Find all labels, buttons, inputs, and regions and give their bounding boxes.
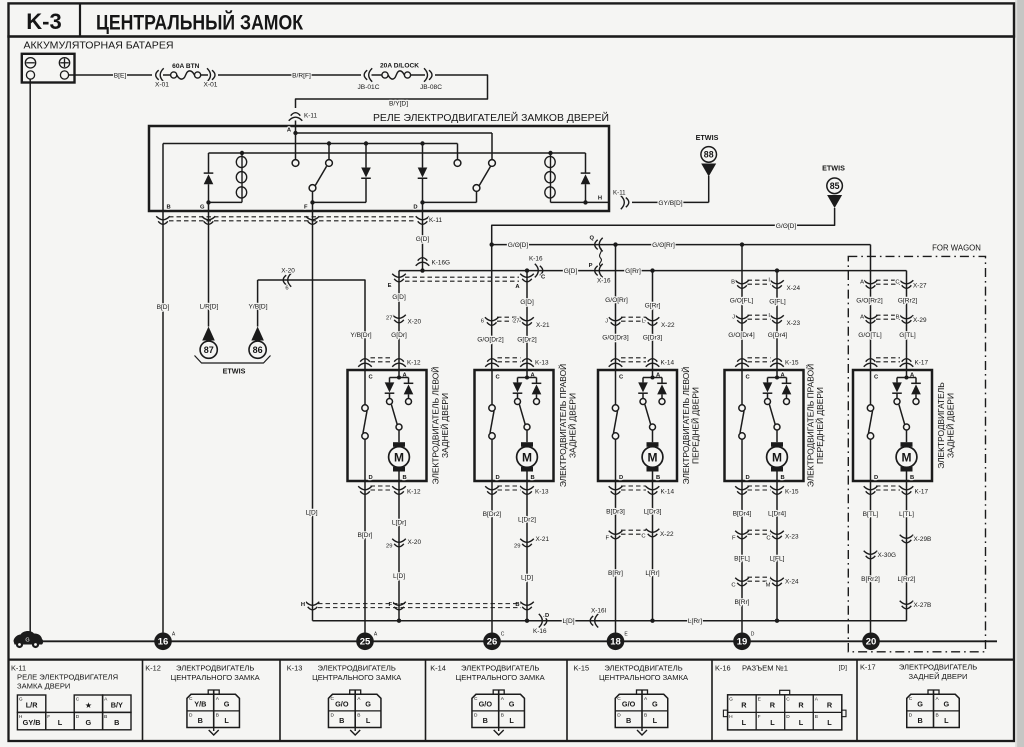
connector X-22 bottom bbox=[609, 531, 623, 539]
svg-text:H: H bbox=[301, 602, 305, 608]
svg-text:87: 87 bbox=[204, 345, 214, 355]
svg-text:ЦЕНТРАЛЬНОГО ЗАМКА: ЦЕНТРАЛЬНОГО ЗАМКА bbox=[456, 673, 546, 682]
ground point 26 bbox=[483, 633, 501, 651]
connector K-16 pin A bbox=[526, 271, 528, 370]
wire B/R[F] bbox=[218, 74, 361, 76]
svg-text:G: G bbox=[509, 700, 515, 709]
svg-text:C: C bbox=[786, 696, 790, 702]
svg-text:M: M bbox=[766, 583, 771, 589]
svg-text:D: D bbox=[909, 713, 913, 719]
svg-text:A: A bbox=[644, 696, 648, 702]
node K-16 pin A junction bbox=[525, 268, 529, 272]
svg-text:L/R: L/R bbox=[26, 700, 38, 709]
svg-text:K-16: K-16 bbox=[715, 664, 731, 673]
connector K-15 below M4 right-front bbox=[735, 486, 749, 494]
svg-text:K-15: K-15 bbox=[785, 489, 799, 496]
svg-text:C: C bbox=[619, 375, 624, 381]
svg-text:19: 19 bbox=[737, 637, 748, 648]
svg-text:X-01: X-01 bbox=[155, 82, 169, 89]
ETWIS pointer 87 bbox=[202, 327, 215, 341]
wire G[Rr2] upper bbox=[906, 271, 908, 370]
svg-text:K-16G: K-16G bbox=[432, 260, 450, 267]
svg-text:B[D]: B[D] bbox=[157, 304, 170, 311]
svg-text:ETWIS: ETWIS bbox=[223, 367, 246, 376]
svg-text:X-29B: X-29B bbox=[914, 536, 932, 543]
svg-text:G[FL]: G[FL] bbox=[769, 299, 786, 306]
M2 right-rear motor M bbox=[526, 430, 528, 442]
connector JB-08C bbox=[424, 68, 432, 82]
battery BAT1 bbox=[22, 54, 75, 83]
svg-text:X-27B: X-27B bbox=[914, 602, 932, 609]
svg-text:M: M bbox=[902, 450, 912, 464]
svg-text:R: R bbox=[770, 700, 776, 709]
svg-text:G: G bbox=[944, 700, 950, 709]
svg-text:F: F bbox=[732, 536, 736, 542]
svg-text:X-16I: X-16I bbox=[591, 608, 606, 615]
svg-text:P: P bbox=[589, 263, 593, 269]
svg-text:B: B bbox=[114, 718, 119, 727]
svg-text:L[TL]: L[TL] bbox=[899, 511, 914, 518]
ground point 25 bbox=[356, 633, 374, 651]
legend K-17 pinout table bbox=[907, 694, 960, 727]
bus G/O[D]-G/O[Rr] bbox=[492, 244, 871, 246]
svg-text:C: C bbox=[641, 534, 645, 540]
connector X-01 right bbox=[207, 68, 215, 82]
svg-text:C: C bbox=[496, 375, 501, 381]
connector K-16 pin D bbox=[539, 614, 547, 628]
svg-text:G/O[Rr2]: G/O[Rr2] bbox=[856, 298, 883, 305]
svg-text:D: D bbox=[874, 475, 878, 481]
node box2 left bbox=[490, 242, 494, 246]
relay U1 box bbox=[149, 126, 609, 211]
connector K-16 pin E bbox=[392, 274, 406, 282]
svg-text:A: A bbox=[860, 315, 864, 321]
door lock motor M2 right-rear box bbox=[475, 370, 554, 481]
door lock motor M5 tailgate box bbox=[853, 370, 932, 481]
svg-text:ЭЛЕКТРОДВИГАТЕЛЬ: ЭЛЕКТРОДВИГАТЕЛЬ bbox=[461, 664, 539, 673]
svg-text:ЭЛЕКТРОДВИГАТЕЛЬ ПРАВОЙ: ЭЛЕКТРОДВИГАТЕЛЬ ПРАВОЙ bbox=[805, 364, 816, 487]
svg-text:R: R bbox=[827, 700, 833, 709]
svg-text:L[FL]: L[FL] bbox=[769, 556, 784, 563]
svg-text:FOR WAGON: FOR WAGON bbox=[932, 244, 981, 253]
node box3 left top bbox=[613, 242, 617, 246]
connector K-16 pin H bbox=[306, 602, 320, 610]
svg-text:ETWIS: ETWIS bbox=[696, 133, 719, 142]
svg-text:A: A bbox=[501, 696, 505, 702]
wire G[FL] upper bbox=[776, 271, 778, 370]
svg-text:B: B bbox=[104, 714, 107, 720]
wire G/O[Rr] down bbox=[615, 245, 617, 370]
relay pin H wire bbox=[551, 201, 610, 203]
svg-text:B: B bbox=[483, 716, 488, 725]
svg-text:R: R bbox=[741, 700, 747, 709]
svg-text:26: 26 bbox=[487, 637, 498, 648]
svg-text:K-17: K-17 bbox=[915, 489, 929, 496]
svg-text:D: D bbox=[496, 475, 500, 481]
connector X-16 pin Q bbox=[595, 238, 603, 252]
svg-text:B[FL]: B[FL] bbox=[734, 556, 750, 563]
svg-text:L[Rr2]: L[Rr2] bbox=[898, 576, 916, 583]
svg-text:G: G bbox=[19, 697, 23, 703]
node L bus box2 bbox=[525, 619, 529, 623]
svg-text:ЦЕНТРАЛЬНОГО ЗАМКА: ЦЕНТРАЛЬНОГО ЗАМКА bbox=[312, 673, 402, 682]
svg-text:C: C bbox=[746, 375, 751, 381]
relay bus A bbox=[296, 132, 493, 134]
wire B[TL] wagon bbox=[870, 481, 872, 633]
relay diode D3 bbox=[420, 141, 424, 145]
svg-text:B[Dr3]: B[Dr3] bbox=[606, 509, 625, 516]
svg-text:K-14: K-14 bbox=[430, 664, 446, 673]
svg-text:C: C bbox=[909, 696, 913, 702]
svg-text:РАЗЪЕМ №1: РАЗЪЕМ №1 bbox=[742, 664, 788, 673]
svg-text:ЗАМКА ДВЕРИ: ЗАМКА ДВЕРИ bbox=[17, 682, 70, 691]
svg-text:K-12: K-12 bbox=[407, 360, 421, 367]
M5 tailgate changeover switch bbox=[904, 424, 910, 430]
svg-text:G[D]: G[D] bbox=[564, 268, 578, 275]
svg-text:R: R bbox=[798, 700, 804, 709]
svg-text:X-24: X-24 bbox=[785, 579, 799, 586]
svg-text:ЭЛЕКТРОДВИГАТЕЛЬ ЛЕВОЙ: ЭЛЕКТРОДВИГАТЕЛЬ ЛЕВОЙ bbox=[680, 367, 691, 485]
svg-text:L[D]: L[D] bbox=[562, 618, 574, 625]
scan shadow right edge bbox=[1017, 0, 1024, 747]
svg-text:G[Dr3]: G[Dr3] bbox=[643, 334, 663, 341]
connector K-14 below M3 left-front bbox=[609, 486, 623, 494]
svg-text:G/O[FL]: G/O[FL] bbox=[730, 298, 754, 305]
svg-text:K-16: K-16 bbox=[529, 256, 543, 263]
svg-text:L[Rr]: L[Rr] bbox=[645, 570, 659, 577]
connector X-29B bbox=[900, 535, 914, 543]
svg-text:ЗАДНЕЙ ДВЕРИ: ЗАДНЕЙ ДВЕРИ bbox=[439, 393, 450, 458]
svg-text:B[TL]: B[TL] bbox=[863, 511, 879, 518]
svg-text:27: 27 bbox=[386, 316, 392, 322]
wire B[Dr] box1 bbox=[364, 481, 366, 633]
svg-text:L/R[D]: L/R[D] bbox=[200, 304, 219, 311]
svg-text:C: C bbox=[895, 280, 899, 286]
svg-text:B[Rr2]: B[Rr2] bbox=[861, 576, 880, 583]
relay diode D1 (G branch) bbox=[208, 153, 210, 173]
M3 left-front pin C switch bbox=[615, 370, 617, 405]
svg-text:B: B bbox=[936, 713, 939, 719]
svg-text:L: L bbox=[827, 718, 832, 727]
wire L/R[D] bbox=[208, 212, 210, 327]
svg-text:X-20: X-20 bbox=[408, 319, 422, 326]
svg-text:ЦЕНТРАЛЬНОГО ЗАМКА: ЦЕНТРАЛЬНОГО ЗАМКА bbox=[599, 673, 689, 682]
svg-text:D: D bbox=[619, 475, 623, 481]
svg-text:G: G bbox=[365, 700, 371, 709]
ETWIS pointer 86 bbox=[251, 327, 264, 341]
M1 left-rear pin C switch bbox=[364, 370, 366, 405]
svg-text:L: L bbox=[944, 716, 949, 725]
svg-text:ЭЛЕКТРОДВИГАТЕЛЬ ЛЕВОЙ: ЭЛЕКТРОДВИГАТЕЛЬ ЛЕВОЙ bbox=[430, 367, 441, 485]
svg-text:X-22: X-22 bbox=[660, 531, 674, 538]
svg-text:G[Dr2]: G[Dr2] bbox=[517, 336, 537, 343]
connector X-30G bbox=[864, 551, 878, 559]
relay coil L2 bbox=[548, 151, 552, 155]
svg-text:D: D bbox=[474, 713, 478, 719]
relay pin D wire bbox=[420, 200, 424, 204]
svg-text:C: C bbox=[369, 375, 374, 381]
connector K-11 below relay bbox=[169, 216, 417, 218]
node L bus box3 bbox=[650, 619, 654, 623]
M2 right-rear pin A diodes bbox=[526, 370, 528, 378]
svg-text:B: B bbox=[167, 205, 171, 211]
svg-text:B: B bbox=[216, 713, 219, 719]
svg-text:ЭЛЕКТРОДВИГАТЕЛЬ: ЭЛЕКТРОДВИГАТЕЛЬ bbox=[318, 664, 396, 673]
svg-text:G/O[Dr3]: G/O[Dr3] bbox=[602, 334, 629, 341]
svg-text:L[D]: L[D] bbox=[521, 574, 533, 581]
svg-text:K-14: K-14 bbox=[661, 489, 675, 496]
door lock motor M1 left-rear box bbox=[348, 370, 427, 481]
svg-text:C: C bbox=[330, 696, 334, 702]
svg-text:B: B bbox=[656, 475, 660, 481]
svg-text:G[Dr4]: G[Dr4] bbox=[768, 332, 788, 339]
svg-text:ЭЛЕКТРОДВИГАТЕЛЬ: ЭЛЕКТРОДВИГАТЕЛЬ bbox=[899, 663, 977, 672]
svg-text:G[D]: G[D] bbox=[392, 294, 406, 301]
svg-text:L[Dr4]: L[Dr4] bbox=[768, 511, 786, 518]
svg-text:K-3: K-3 bbox=[26, 9, 61, 34]
svg-text:A: A bbox=[104, 697, 108, 703]
svg-text:B/Y[D]: B/Y[D] bbox=[389, 101, 408, 108]
wire battery positive B[E] bbox=[69, 74, 152, 76]
connector K-14 above M3 left-front bbox=[609, 359, 623, 367]
svg-text:K-12: K-12 bbox=[145, 664, 161, 673]
relay wire F to diode D2 bbox=[310, 200, 314, 204]
svg-text:Y/B[Dr]: Y/B[Dr] bbox=[350, 332, 371, 339]
svg-text:X-24: X-24 bbox=[787, 285, 801, 292]
svg-text:6: 6 bbox=[481, 319, 484, 325]
wire G[Rr] down bbox=[652, 271, 654, 370]
svg-text:C: C bbox=[76, 697, 80, 703]
svg-text:L: L bbox=[366, 716, 371, 725]
svg-text:L[Dr3]: L[Dr3] bbox=[644, 509, 662, 516]
connector X-16I bbox=[590, 614, 598, 628]
connector X-27 bbox=[864, 280, 878, 288]
svg-text:L: L bbox=[770, 718, 775, 727]
connector K-16 pin C bbox=[535, 264, 543, 278]
svg-text:M: M bbox=[522, 450, 532, 464]
svg-text:X-22: X-22 bbox=[661, 322, 675, 329]
svg-text:D: D bbox=[189, 713, 193, 719]
svg-text:B[E]: B[E] bbox=[114, 73, 127, 80]
svg-text:G/O[D]: G/O[D] bbox=[508, 242, 529, 249]
svg-text:B: B bbox=[815, 714, 818, 720]
svg-text:29: 29 bbox=[514, 544, 520, 550]
M2 right-rear changeover switch bbox=[524, 424, 530, 430]
svg-text:X-20: X-20 bbox=[281, 268, 295, 275]
wire L[Dr2] box2 bbox=[526, 481, 528, 621]
M1 left-rear changeover switch bbox=[396, 424, 402, 430]
svg-text:B: B bbox=[198, 716, 203, 725]
svg-text:B: B bbox=[644, 713, 647, 719]
svg-text:J: J bbox=[732, 315, 735, 321]
svg-text:D: D bbox=[545, 613, 549, 619]
svg-text:ЭЛЕКТРОДВИГАТЕЛЬ ПРАВОЙ: ЭЛЕКТРОДВИГАТЕЛЬ ПРАВОЙ bbox=[557, 364, 568, 487]
svg-text:G[Rr]: G[Rr] bbox=[625, 268, 641, 275]
FOR WAGON dash-dot box bbox=[848, 256, 985, 651]
wire Y/B[D] bbox=[257, 280, 259, 327]
svg-text:B[Dr2]: B[Dr2] bbox=[483, 511, 502, 518]
svg-text:G: G bbox=[25, 638, 29, 644]
M1 left-rear pin A diodes bbox=[398, 370, 400, 378]
connector JB-01C bbox=[364, 68, 372, 82]
relay pin B wire bbox=[162, 144, 164, 212]
connector K-13 above M2 right-rear bbox=[485, 359, 499, 367]
svg-text:JB-08C: JB-08C bbox=[420, 84, 442, 91]
svg-text:B: B bbox=[917, 716, 922, 725]
svg-text:L[D]: L[D] bbox=[305, 510, 317, 517]
svg-text:K-15: K-15 bbox=[785, 360, 799, 367]
svg-text:ЗАДНЕЙ ДВЕРИ: ЗАДНЕЙ ДВЕРИ bbox=[909, 672, 968, 681]
title block bbox=[9, 3, 1015, 36]
svg-text:ЗАДНЕЙ ДВЕРИ: ЗАДНЕЙ ДВЕРИ bbox=[567, 393, 578, 458]
door lock motor M3 left-front box bbox=[598, 370, 677, 481]
node box4 left top bbox=[740, 242, 744, 246]
svg-text:B: B bbox=[339, 716, 344, 725]
svg-text:20A D/LOCK: 20A D/LOCK bbox=[380, 63, 419, 70]
svg-text:G[Rr2]: G[Rr2] bbox=[898, 298, 918, 305]
svg-text:АККУМУЛЯТОРНАЯ БАТАРЕЯ: АККУМУЛЯТОРНАЯ БАТАРЕЯ bbox=[24, 41, 174, 52]
svg-text:F: F bbox=[304, 205, 308, 211]
svg-text:C: C bbox=[617, 696, 621, 702]
svg-text:A: A bbox=[357, 696, 361, 702]
svg-text:D: D bbox=[751, 631, 755, 637]
ground point 18 bbox=[607, 633, 625, 651]
connector X-20 pin 29 bbox=[392, 539, 406, 547]
svg-text:G: G bbox=[729, 696, 733, 702]
M1 left-rear motor M bbox=[398, 430, 400, 442]
svg-text:A: A bbox=[860, 280, 864, 286]
svg-text:D: D bbox=[617, 713, 621, 719]
svg-text:B: B bbox=[626, 716, 631, 725]
legend cell divider bbox=[711, 660, 713, 741]
svg-text:6: 6 bbox=[285, 286, 288, 292]
svg-text:L[D]: L[D] bbox=[393, 573, 405, 580]
legend cell divider bbox=[142, 660, 144, 741]
node L bus box4 bbox=[775, 619, 779, 623]
svg-text:B: B bbox=[781, 475, 785, 481]
wire L[TL] wagon bbox=[906, 481, 908, 621]
svg-text:G/O: G/O bbox=[479, 700, 493, 709]
legend K-16 pinout table bbox=[728, 695, 842, 730]
ground point 16 bbox=[154, 633, 172, 651]
svg-text:D: D bbox=[76, 714, 80, 720]
svg-text:G/O[D]: G/O[D] bbox=[776, 223, 797, 230]
svg-text:X-16: X-16 bbox=[597, 278, 611, 285]
svg-text:B: B bbox=[910, 475, 914, 481]
svg-text:[D]: [D] bbox=[839, 665, 848, 672]
svg-text:K-17: K-17 bbox=[860, 663, 876, 672]
connector K-12 below M1 left-rear bbox=[358, 486, 372, 494]
wire G[D] from relay D bbox=[422, 212, 424, 271]
relay bus C bbox=[209, 152, 586, 154]
legend cell divider bbox=[425, 660, 427, 741]
svg-text:K-15: K-15 bbox=[574, 664, 590, 673]
svg-text:20: 20 bbox=[866, 637, 877, 648]
svg-text:X-27: X-27 bbox=[913, 283, 927, 290]
svg-text:РЕЛЕ ЭЛЕКТРОДВИГАТЕЛЕЙ ЗАМКОВ: РЕЛЕ ЭЛЕКТРОДВИГАТЕЛЕЙ ЗАМКОВ ДВЕРЕЙ bbox=[373, 112, 609, 124]
legend cell divider bbox=[279, 660, 281, 741]
bus L[D]-L[Rr] bbox=[313, 620, 907, 622]
svg-text:G: G bbox=[224, 700, 230, 709]
wire B[Dr3] box3 bbox=[615, 481, 617, 633]
svg-text:D: D bbox=[369, 475, 373, 481]
wire L[Dr4] box4 bbox=[776, 481, 778, 621]
connector X-23 bottom bbox=[735, 531, 749, 539]
svg-text:ПЕРЕДНЕЙ ДВЕРИ: ПЕРЕДНЕЙ ДВЕРИ bbox=[814, 387, 825, 464]
legend separator bbox=[9, 658, 1015, 660]
M5 tailgate motor M bbox=[906, 430, 908, 442]
svg-text:JB-01C: JB-01C bbox=[358, 84, 380, 91]
connector X-24 bottom bbox=[735, 578, 749, 586]
svg-text:E: E bbox=[624, 631, 628, 637]
svg-text:B[Dr4]: B[Dr4] bbox=[733, 511, 752, 518]
svg-text:G: G bbox=[200, 205, 205, 211]
ground point 20 bbox=[862, 633, 880, 651]
connector K-17 above M5 tailgate bbox=[864, 359, 878, 367]
svg-text:B: B bbox=[731, 280, 735, 286]
wire B[D] bbox=[162, 212, 164, 633]
M5 tailgate pin C switch bbox=[870, 370, 872, 405]
svg-text:Q: Q bbox=[589, 236, 594, 242]
svg-text:L: L bbox=[58, 718, 63, 727]
svg-text:G/O[Rr]: G/O[Rr] bbox=[652, 242, 675, 249]
connector K-13 below M2 right-rear bbox=[485, 486, 499, 494]
svg-text:G[TL]: G[TL] bbox=[899, 332, 916, 339]
svg-text:K-13: K-13 bbox=[535, 489, 549, 496]
svg-text:L: L bbox=[653, 716, 658, 725]
connector X-20 pin 27 bbox=[392, 315, 406, 323]
svg-text:GY/B[D]: GY/B[D] bbox=[658, 200, 682, 207]
svg-text:G[D]: G[D] bbox=[520, 299, 534, 306]
svg-text:27: 27 bbox=[513, 319, 519, 325]
svg-text:M: M bbox=[772, 450, 782, 464]
node G[D] junction bbox=[420, 268, 424, 272]
svg-text:K-13: K-13 bbox=[287, 664, 303, 673]
svg-text:K-11: K-11 bbox=[11, 664, 26, 673]
svg-text:G[Rr]: G[Rr] bbox=[645, 302, 661, 309]
connector X-16 pin P bbox=[595, 264, 603, 278]
svg-text:K-17: K-17 bbox=[915, 360, 929, 367]
svg-text:ЭЛЕКТРОДВИГАТЕЛЬ: ЭЛЕКТРОДВИГАТЕЛЬ bbox=[936, 382, 946, 469]
wire L[Dr3] box3 bbox=[652, 481, 654, 621]
connector X-21 top bbox=[485, 317, 499, 325]
svg-text:C: C bbox=[189, 696, 193, 702]
svg-text:ЭЛЕКТРОДВИГАТЕЛЬ: ЭЛЕКТРОДВИГАТЕЛЬ bbox=[176, 664, 254, 673]
svg-text:ЗАДНЕЙ ДВЕРИ: ЗАДНЕЙ ДВЕРИ bbox=[945, 393, 956, 458]
svg-text:B/R[F]: B/R[F] bbox=[292, 73, 311, 80]
svg-text:ЦЕНТРАЛЬНЫЙ ЗАМОК: ЦЕНТРАЛЬНЫЙ ЗАМОК bbox=[96, 11, 303, 35]
svg-text:X-01: X-01 bbox=[204, 82, 218, 89]
svg-text:G/O: G/O bbox=[622, 700, 636, 709]
svg-text:G: G bbox=[917, 700, 923, 709]
svg-text:X-20: X-20 bbox=[408, 539, 422, 546]
svg-text:G[Dr]: G[Dr] bbox=[391, 332, 407, 339]
relay switch S1 bbox=[327, 141, 331, 145]
svg-text:D: D bbox=[330, 713, 334, 719]
svg-text:G/O: G/O bbox=[335, 700, 349, 709]
svg-text:C: C bbox=[766, 536, 770, 542]
M4 right-front changeover switch bbox=[774, 424, 780, 430]
svg-text:Y/B: Y/B bbox=[194, 700, 206, 709]
connector K-15 above M4 right-front bbox=[735, 359, 749, 367]
connector K-16 pin B bbox=[520, 602, 534, 610]
relay coil L1 bbox=[241, 153, 243, 202]
svg-text:K-13: K-13 bbox=[535, 360, 549, 367]
legend K-11 pinout table bbox=[17, 695, 45, 712]
svg-text:L[Dr2]: L[Dr2] bbox=[518, 517, 536, 524]
svg-text:F: F bbox=[47, 714, 50, 720]
svg-text:A: A bbox=[936, 696, 940, 702]
